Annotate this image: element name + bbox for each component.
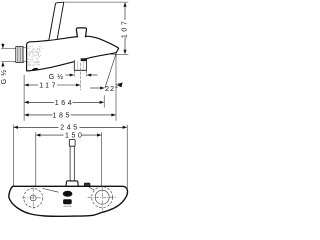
wall extension line: [23, 75, 25, 121]
svg-text:185: 185: [53, 112, 72, 119]
lever handle: [49, 2, 64, 40]
svg-text:245: 245: [60, 124, 79, 131]
dim 245 extension lines: [12, 125, 14, 187]
dim 164: [24, 100, 104, 107]
svg-text:G ½: G ½: [0, 69, 8, 84]
dark feature lower: [63, 199, 72, 204]
left union: crosshair: [22, 188, 45, 210]
plan body outline: [9, 186, 128, 216]
svg-text:117: 117: [39, 83, 58, 90]
dim 185: [24, 112, 116, 119]
dark feature upper (outlet hole): [63, 191, 73, 197]
dim 245: [13, 124, 127, 131]
svg-text:G ½: G ½: [49, 73, 64, 81]
svg-text:107: 107: [122, 19, 129, 38]
left union: dashed circle: [24, 188, 43, 207]
svg-text:22°: 22°: [105, 85, 119, 93]
dim 107 top extension line: [64, 1, 129, 3]
dimension G1/2 inlet left: vertical dim line: [2, 43, 4, 68]
dim 164 right extension line: [103, 95, 105, 107]
hose outlet dark collar: [81, 58, 87, 61]
dimension G1/2 inlet left: extension lines: [1, 49, 15, 62]
angle 22 deg: left arrow: [90, 86, 105, 89]
dim 107 bottom extension line: [111, 53, 128, 55]
outlet centerline extension: [80, 63, 82, 90]
dim 107: [122, 2, 129, 54]
right union: crosshair: [88, 186, 117, 211]
dim 150 extension lines: [35, 132, 37, 186]
angle 22 deg: slanted extension of end face: [105, 53, 117, 89]
plan lever knob: [69, 139, 75, 146]
svg-text:150: 150: [65, 133, 84, 140]
right union: dashed circle: [92, 187, 113, 208]
union neck: [23, 48, 26, 61]
underside bump set screw: [31, 68, 38, 71]
dim G1/2 outlet: extension lines: [74, 71, 86, 77]
gray line under lower feature: [64, 205, 72, 207]
dim 185 right extension line E1: [115, 52, 117, 121]
svg-text:164: 164: [55, 100, 74, 107]
left union: inner small circle: [30, 195, 36, 201]
hidden arc line right of lever base: [89, 187, 94, 190]
plan top edge nub: [84, 183, 90, 186]
angle 22 deg: right arrow on E1: [117, 82, 123, 87]
hidden thread stipple inside body: [28, 47, 43, 66]
hidden arc line left of lever base: [43, 188, 59, 192]
dimension G1/2 inlet left: arrowheads: [1, 44, 4, 66]
union nut knurled: [16, 47, 23, 63]
dim G1/2 outlet: arrows: [66, 73, 98, 76]
right union: inner solid circle: [95, 190, 109, 204]
plan lever base: [66, 181, 78, 186]
faucet body outline: [27, 36, 119, 71]
dim 150: [36, 133, 102, 140]
hose outlet under spout: [74, 59, 86, 71]
plan lever shaft: [70, 146, 74, 181]
dim 117: [24, 83, 80, 90]
diverter knob: [76, 28, 86, 37]
